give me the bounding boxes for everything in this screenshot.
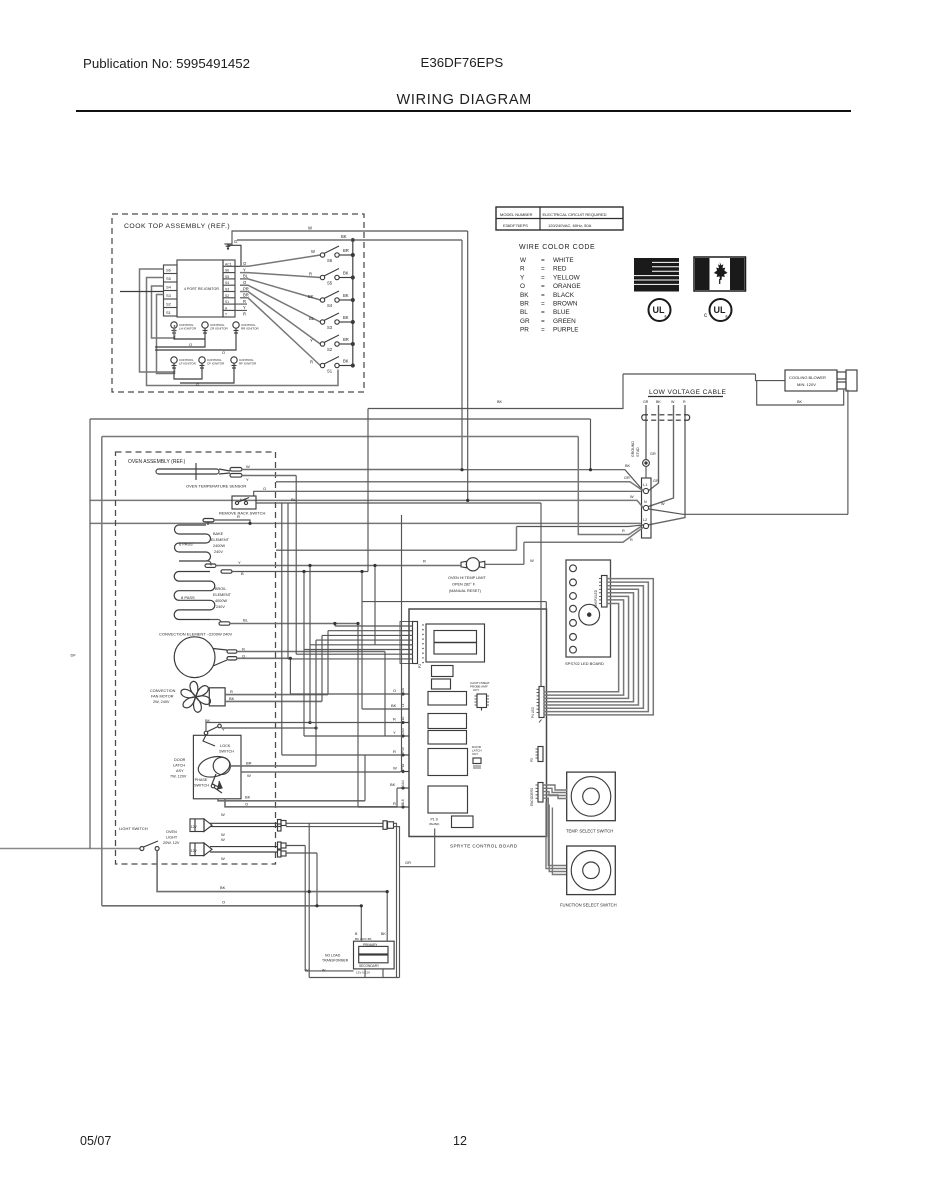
svg-text:NO LOAD: NO LOAD (325, 954, 341, 958)
board left pin stubs (401, 693, 410, 808)
svg-text:BK: BK (391, 703, 397, 708)
svg-text:4000W: 4000W (215, 599, 227, 603)
svg-text:BK: BK (625, 464, 631, 468)
svg-text:=: = (541, 318, 545, 325)
svg-text:05/07: 05/07 (80, 1134, 111, 1148)
svg-text:O: O (520, 283, 525, 290)
relay K3 (428, 731, 467, 745)
wire loop upper left inner (102, 437, 579, 906)
svg-text:STUD: STUD (636, 447, 640, 457)
P2 bundle wire 8 (288, 658, 413, 660)
svg-text:O: O (243, 280, 247, 285)
module pin wire labels (243, 261, 249, 317)
burner switch S3 (240, 285, 354, 330)
svg-text:T: T (225, 313, 227, 317)
svg-text:S3: S3 (225, 288, 229, 292)
door latch wires (218, 761, 401, 807)
svg-text:S4: S4 (225, 281, 229, 285)
led board connector (594, 576, 607, 609)
riser x516 (516, 527, 518, 551)
svg-text:BK: BK (343, 293, 349, 298)
svg-text:BLUE: BLUE (553, 309, 570, 316)
svg-text:LIGHT: LIGHT (166, 836, 178, 840)
pin wire Y (304, 735, 401, 737)
wire rack switch O to L1 (254, 491, 641, 496)
svg-text:R: R (309, 272, 312, 277)
svg-text:ELEMENT: ELEMENT (211, 538, 230, 542)
trunk vertical broil BL to pin (357, 624, 359, 808)
svg-text:=: = (541, 274, 545, 281)
svg-text:RF IGNITOR: RF IGNITOR (239, 362, 257, 366)
svg-text:120/240VAC, 60Hz, 50A: 120/240VAC, 60Hz, 50A (548, 223, 592, 228)
wire BK cooktop to L1 (462, 240, 643, 491)
wire R bake to L2 (90, 522, 641, 524)
oven hi temp limit thermostat (423, 558, 534, 593)
svg-text:BK: BK (220, 885, 226, 890)
svg-text:Y: Y (243, 267, 246, 272)
lamp 1 connector (278, 820, 287, 832)
svg-text:®: ® (664, 314, 667, 319)
svg-text:E36DF76EPS: E36DF76EPS (503, 223, 528, 228)
board left pin labels (401, 687, 405, 805)
P2 bundle wire 6 (304, 649, 413, 651)
low voltage frame wire top (368, 374, 756, 409)
svg-text:2400W: 2400W (213, 544, 225, 548)
svg-text:W: W (311, 249, 315, 254)
svg-text:GR: GR (650, 452, 656, 456)
svg-text:PURPLE: PURPLE (553, 327, 579, 334)
light switch return wires (102, 851, 387, 906)
trunk vertical frame BK drop (367, 409, 369, 572)
wire riser x590 to BK L1 line (590, 419, 592, 470)
svg-text:LF IGNITOR: LF IGNITOR (179, 362, 197, 366)
pin wire R3 (358, 806, 401, 808)
svg-text:S5: S5 (225, 275, 229, 279)
svg-text:W: W (661, 502, 665, 506)
wire BK to cooling blower (756, 374, 848, 514)
svg-text:SPRYTE CONTROL BOARD: SPRYTE CONTROL BOARD (450, 844, 518, 849)
svg-text:Y: Y (520, 274, 525, 281)
burner switch S6 (240, 246, 354, 266)
relay K2 (428, 714, 467, 729)
board edge connector P1 (400, 622, 424, 669)
svg-text:R: R (393, 717, 396, 722)
svg-text:6 PASS: 6 PASS (179, 542, 193, 547)
svg-text:Y: Y (222, 728, 225, 732)
svg-text:LIGHT SWITCH: LIGHT SWITCH (119, 826, 148, 831)
trunk vertical fan R riser (327, 631, 329, 695)
svg-text:A: A (225, 306, 228, 310)
IC U1 (470, 681, 490, 711)
module pin stubs A T (235, 304, 247, 310)
broil element wires (210, 572, 368, 626)
svg-text:PRIMARY: PRIMARY (363, 943, 378, 947)
ground symbol on spark module (225, 239, 242, 266)
svg-text:P4 LED: P4 LED (531, 706, 535, 718)
cooling blower box (785, 370, 857, 391)
svg-text:CONVECTION: CONVECTION (150, 689, 176, 693)
svg-text:S1: S1 (225, 300, 229, 304)
svg-text:1A4: 1A4 (401, 780, 405, 786)
svg-text:12: 12 (453, 1134, 467, 1148)
svg-text:BK: BK (343, 315, 349, 320)
svg-text:TRANSFORMER: TRANSFORMER (322, 959, 349, 963)
svg-text:BLACK: BLACK (553, 292, 575, 299)
buzzer (579, 604, 600, 625)
ground stud wire to L1 (645, 466, 647, 478)
svg-text:LATCH: LATCH (173, 764, 185, 768)
svg-text:BK: BK (341, 234, 347, 239)
svg-text:W: W (221, 856, 225, 861)
svg-text:BAKE: BAKE (213, 532, 224, 536)
svg-text:BK: BK (229, 696, 235, 701)
svg-text:WIRING DIAGRAM: WIRING DIAGRAM (397, 92, 532, 108)
svg-text:=: = (541, 257, 545, 264)
wire Y to board corner (362, 602, 546, 609)
svg-text:BK: BK (343, 359, 349, 364)
svg-text:ORANGE: ORANGE (553, 283, 581, 290)
cook top assembly boundary box (112, 214, 364, 392)
svg-text:R: R (237, 514, 240, 519)
svg-text:BR: BR (520, 301, 529, 308)
svg-text:BK: BK (520, 292, 529, 299)
oven lamp 1 (190, 812, 278, 837)
svg-text:R: R (683, 400, 686, 404)
burner switch S5 (240, 269, 354, 286)
svg-text:Y: Y (310, 338, 313, 343)
trunk vertical hi-limit R to pin (374, 566, 376, 645)
ground stud (631, 441, 656, 467)
P2 bundle wire 3 (322, 634, 413, 636)
svg-text:CR IGNITOR: CR IGNITOR (210, 327, 228, 331)
pin wire BK2 (397, 787, 401, 789)
svg-text:AC1: AC1 (225, 262, 232, 266)
svg-text:PHASE: PHASE (195, 778, 208, 782)
svg-text:W: W (247, 773, 251, 778)
svg-text:FUNCTION SELECT SWITCH: FUNCTION SELECT SWITCH (560, 903, 617, 908)
svg-text:SWITCH: SWITCH (219, 750, 234, 754)
svg-text:12V: 12V (191, 825, 198, 829)
lock switch wires (206, 721, 318, 731)
svg-text:OVEN TEMPERATURE SENSOR: OVEN TEMPERATURE SENSOR (186, 484, 246, 489)
wire W cooktop down to N line (467, 231, 469, 500)
lamp 1 drop wires (394, 823, 400, 977)
wire BL rack to P4 area (288, 503, 541, 687)
svg-text:O: O (189, 342, 192, 347)
svg-text:REMOVE RACK SWITCH: REMOVE RACK SWITCH (219, 511, 266, 516)
svg-text:BL6: BL6 (401, 799, 405, 805)
led indicators (570, 565, 577, 653)
svg-text:=: = (541, 327, 545, 334)
remove rack switch (219, 486, 297, 516)
pin wire R2 (282, 754, 401, 756)
UL listed mark (649, 299, 671, 321)
svg-text:CF IGNITOR: CF IGNITOR (207, 362, 225, 366)
svg-text:W: W (393, 766, 397, 771)
svg-text:YELLOW: YELLOW (553, 274, 581, 281)
svg-text:W: W (630, 495, 634, 499)
svg-text:GR: GR (520, 318, 530, 325)
pin wire W (400, 771, 402, 773)
latch cam (196, 753, 232, 780)
trunk vertical broil BL (334, 624, 336, 627)
svg-text:W: W (671, 400, 675, 404)
svg-text:S5: S5 (327, 281, 333, 286)
svg-text:L2: L2 (643, 518, 647, 522)
svg-text:PR: PR (520, 327, 529, 334)
svg-text:PR: PR (243, 286, 249, 291)
svg-text:N.O.: N.O. (240, 498, 247, 502)
relay K1 (428, 692, 467, 706)
svg-text:S2: S2 (166, 302, 172, 307)
svg-text:Y: Y (238, 560, 241, 565)
svg-text:ASY: ASY (176, 769, 184, 773)
svg-text:COOLING BLOWER: COOLING BLOWER (789, 375, 826, 380)
svg-text:CONVECTION ELEMENT ~2200W 240: CONVECTION ELEMENT ~2200W 240V (159, 632, 233, 637)
svg-text:O: O (222, 350, 225, 355)
switch output bus wire (352, 240, 354, 366)
svg-text:BL: BL (309, 316, 315, 321)
svg-text:BK: BK (343, 271, 349, 276)
svg-text:S5: S5 (166, 276, 172, 281)
svg-text:MIN. 120V: MIN. 120V (797, 382, 816, 387)
svg-text:RR IGNITOR: RR IGNITOR (241, 327, 259, 331)
svg-text:O: O (393, 688, 396, 693)
wire W from module to right (232, 226, 468, 246)
svg-text:CKT.: CKT. (472, 752, 479, 756)
title rule (76, 110, 851, 112)
bake element wires (205, 520, 461, 567)
svg-text:COOK TOP ASSEMBLY (REF.): COOK TOP ASSEMBLY (REF.) (124, 223, 230, 230)
transformer wires (305, 846, 400, 978)
wire W to N (90, 500, 643, 508)
svg-text:R: R (230, 689, 233, 694)
svg-text:=: = (541, 292, 545, 299)
wire R riser to L2 (517, 525, 644, 527)
oven temperature sensor (156, 463, 250, 489)
svg-text:SECONDARY: SECONDARY (359, 964, 380, 968)
svg-text:MODEL NUMBER: MODEL NUMBER (500, 212, 533, 217)
svg-text:W: W (530, 558, 534, 563)
pin wire R (310, 722, 401, 724)
svg-text:OVEN ASSEMBLY (REF.): OVEN ASSEMBLY (REF.) (128, 459, 186, 465)
svg-text:BL: BL (520, 309, 528, 316)
svg-text:R: R (243, 312, 246, 317)
trunk vertical sensor Y (295, 476, 297, 655)
svg-text:S6: S6 (166, 268, 172, 273)
wire color code list (520, 257, 581, 334)
wire R hi-limit to L2 (524, 527, 644, 542)
hi-limit riser to L2 fan (523, 542, 525, 564)
oven light label (163, 830, 180, 845)
svg-text:12V: 12V (191, 849, 198, 853)
svg-text:BR: BR (246, 761, 252, 766)
svg-text:Publication No: 5995491452: Publication No: 5995491452 (83, 56, 250, 71)
phase switch (212, 774, 221, 788)
P1S label and wire (400, 818, 440, 978)
trunk vertical latch BR riser (315, 640, 317, 766)
burner switch S4 (240, 279, 354, 308)
svg-text:4 PORT RE-IGNITOR: 4 PORT RE-IGNITOR (184, 287, 219, 291)
spark igniter electrodes row 1 (171, 322, 260, 336)
board connector P4 (531, 687, 544, 723)
trunk vertical BL rack (287, 503, 289, 659)
svg-text:OVEN HI TEMP LIMIT: OVEN HI TEMP LIMIT (448, 576, 487, 580)
spark module: 4 port re-ignitor body (177, 260, 223, 317)
svg-text:S3: S3 (327, 325, 333, 330)
svg-text:B: B (355, 932, 358, 936)
svg-text:240V: 240V (216, 605, 225, 609)
svg-text:Y: Y (246, 477, 249, 482)
wire BK from module top to right (237, 234, 462, 242)
svg-text:BL: BL (243, 274, 249, 279)
temp select wires (543, 785, 567, 799)
svg-text:S1: S1 (327, 369, 333, 374)
svg-text:FAN MOTOR: FAN MOTOR (151, 695, 174, 699)
svg-text:WIRE COLOR CODE: WIRE COLOR CODE (519, 244, 595, 251)
wire loop upper left outer (90, 419, 591, 849)
oven assembly boundary box (116, 452, 276, 864)
relay K4 (428, 749, 468, 776)
trunk vertical latch O to pin (396, 788, 398, 807)
svg-text:BK 120V BK: BK 120V BK (355, 937, 372, 941)
svg-text:LOW VOLTAGE CABLE: LOW VOLTAGE CABLE (649, 389, 726, 396)
pin wire O (290, 693, 400, 695)
svg-text:OPEN 282° F.: OPEN 282° F. (452, 583, 476, 587)
trunk vertical conv O to pin (289, 658, 291, 694)
svg-text:O: O (222, 900, 225, 905)
svg-text:P5: P5 (530, 758, 534, 762)
svg-text:BROIL: BROIL (215, 587, 226, 591)
svg-text:BK: BK (381, 932, 386, 936)
svg-text:(8w/Bd): (8w/Bd) (429, 822, 439, 826)
svg-text:W: W (246, 464, 250, 469)
svg-text:P2: P2 (418, 664, 422, 668)
svg-text:RED: RED (553, 266, 567, 273)
svg-text:OVEN: OVEN (166, 830, 177, 834)
svg-text:R: R (243, 299, 246, 304)
trunk vertical fan BK riser (321, 635, 323, 701)
svg-text:Y: Y (393, 730, 396, 735)
svg-text:O: O (263, 486, 266, 491)
svg-text:L1: L1 (643, 483, 647, 487)
svg-text:240V: 240V (214, 550, 223, 554)
svg-text:DOOR: DOOR (174, 758, 186, 762)
oven lamp 2 (190, 837, 278, 861)
bake element coil (175, 514, 241, 561)
convection fan motor (150, 680, 225, 713)
model table frame (496, 207, 623, 230)
display relay module (426, 624, 485, 662)
P2 bundle wire 2 (328, 630, 413, 632)
svg-text:ENCODERS: ENCODERS (530, 788, 534, 806)
svg-text:®: ® (725, 314, 728, 319)
trunk vertical broil B (303, 572, 305, 737)
burner switch S2 (240, 292, 354, 353)
svg-text:WHI/P2/LED: WHI/P2/LED (594, 589, 598, 608)
svg-text:S4: S4 (166, 285, 172, 290)
svg-text:BK: BK (308, 294, 314, 299)
svg-text:S4: S4 (327, 303, 333, 308)
svg-text:R: R (520, 266, 525, 273)
sensor wires (242, 470, 462, 476)
svg-text:BR: BR (343, 337, 349, 342)
svg-text:WHITE: WHITE (553, 257, 574, 264)
svg-text:R: R (310, 360, 313, 365)
spark igniter electrodes row 2 (171, 357, 257, 371)
svg-text:W: W (221, 812, 225, 817)
svg-text:LOCK: LOCK (220, 744, 231, 748)
svg-text:=: = (541, 283, 545, 290)
svg-text:ELECTRICAL CIRCUIT REQUIRED: ELECTRICAL CIRCUIT REQUIRED (543, 212, 607, 217)
svg-text:(MANUAL RESET): (MANUAL RESET) (449, 589, 482, 593)
svg-text:R: R (393, 749, 396, 754)
wire riser x578 to L2 (578, 437, 641, 535)
svg-text:R: R (423, 559, 426, 564)
svg-text:LH IGNITOR: LH IGNITOR (179, 327, 197, 331)
trunk vertical latch BK to pin (364, 755, 366, 801)
svg-text:=: = (541, 266, 545, 273)
svg-text:BK: BK (245, 795, 251, 800)
svg-text:12V 0 12V: 12V 0 12V (356, 971, 370, 975)
svg-text:W: W (305, 969, 309, 973)
svg-text:SPS702 LED BOARD: SPS702 LED BOARD (565, 661, 604, 666)
spark module right connector column (223, 260, 235, 317)
svg-text:W: W (322, 969, 326, 973)
svg-text:BK: BK (497, 400, 503, 404)
trunk vertical bake Y (309, 566, 311, 723)
small component boxes (432, 666, 454, 690)
svg-text:8 PASS: 8 PASS (181, 595, 195, 600)
spark module left connector column (164, 265, 178, 316)
svg-text:BR: BR (243, 293, 249, 298)
svg-text:GROUND: GROUND (631, 441, 635, 457)
svg-text:GREEN: GREEN (553, 318, 576, 325)
svg-text:2W, 240V: 2W, 240V (153, 700, 170, 704)
svg-text:CKT.: CKT. (473, 688, 480, 692)
svg-text:BK: BK (656, 400, 661, 404)
svg-text:BL: BL (243, 618, 249, 623)
svg-text:W: W (308, 226, 312, 231)
lock switch (204, 731, 208, 735)
convection element wires (237, 652, 385, 659)
svg-text:20W, 12V: 20W, 12V (163, 841, 180, 845)
svg-text:GR: GR (653, 479, 659, 483)
cook top interconnect wires left loop (140, 269, 339, 386)
relay K5 (428, 786, 468, 813)
cook top interconnect wires inner (120, 292, 236, 388)
low voltage cable label (648, 389, 726, 397)
svg-text:R: R (393, 801, 396, 806)
cUL mark (704, 299, 732, 321)
P2 bundle wire 1 (335, 625, 413, 627)
fan motor wires (225, 689, 328, 701)
svg-text:GR: GR (624, 476, 630, 480)
svg-text:P1 S: P1 S (431, 818, 439, 822)
svg-text:S1: S1 (166, 310, 172, 315)
lamp wires to right (286, 823, 383, 977)
svg-text:N: N (644, 500, 647, 504)
board connector P6 encoder (530, 783, 543, 807)
trunk vertical conv R to pin (384, 652, 386, 737)
wire W funnel N to blower (649, 509, 848, 514)
svg-text:DF: DF (71, 653, 77, 658)
terminal block feed wires from left (90, 231, 848, 542)
wire oven chassis line y550 (276, 549, 517, 551)
door latch assembly (170, 719, 241, 799)
svg-text:TEMP. SELECT SWITCH: TEMP. SELECT SWITCH (566, 829, 613, 834)
led ribbon cable (544, 579, 654, 715)
